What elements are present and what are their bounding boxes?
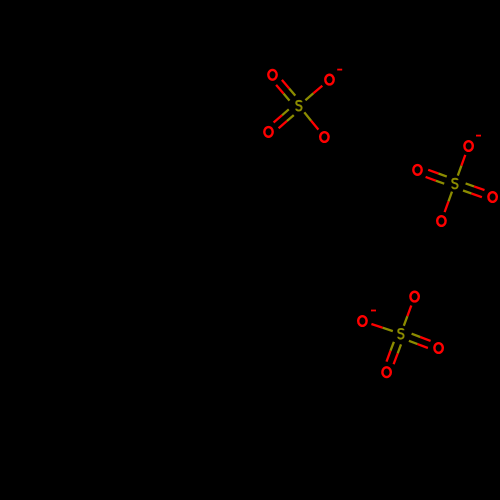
node S3 sulfur: [398, 329, 403, 339]
minus charge on O2a: [476, 135, 481, 137]
wire bond S3-O3d (double): [387, 342, 402, 364]
node O1b oxygen: [325, 75, 333, 85]
node O3d oxygen: [382, 367, 390, 377]
minus charge on O3b: [371, 310, 376, 312]
node O3a oxygen: [410, 292, 418, 302]
node O3b oxygen: [358, 316, 366, 326]
wire bond S2-O2a (single): [458, 155, 466, 176]
node O2a oxygen: [464, 141, 472, 151]
wire bond S1-O1a (double): [276, 80, 295, 101]
node S2 sulfur: [452, 179, 457, 189]
wire bond S3-O3b (single): [371, 324, 392, 331]
node O2c oxygen: [488, 192, 496, 202]
wire bond S1-O1b (single): [305, 86, 322, 100]
minus charge on O1b: [337, 69, 342, 71]
node S1 sulfur: [296, 101, 301, 111]
node O2b oxygen: [413, 165, 421, 175]
node O1a oxygen: [268, 70, 276, 80]
wire bond S3-O3c (double): [409, 334, 431, 348]
wire bond S1-O1c (double): [274, 109, 294, 128]
node O3c oxygen: [434, 343, 442, 353]
node O1d oxygen: [320, 132, 328, 142]
node O1c oxygen: [264, 127, 272, 137]
wire bond S2-O2d (single): [445, 192, 452, 213]
wire bond S1-O1d (single): [304, 112, 318, 129]
wire bond S2-O2c (double): [463, 183, 485, 197]
wire bond S2-O2b (double): [426, 170, 447, 184]
node O2d oxygen: [437, 216, 445, 226]
wire bond S3-O3a (single): [404, 306, 412, 326]
